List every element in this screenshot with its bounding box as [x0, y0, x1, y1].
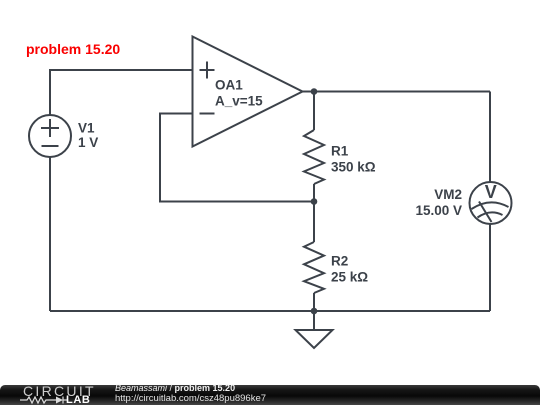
CircuitLab logo resistor-diode glyph [19, 395, 69, 405]
label VM2 value [415, 187, 462, 218]
wire VM2 top lead [489, 92, 491, 183]
wire VM2 bottom lead [489, 224, 491, 311]
footer url line [115, 394, 266, 403]
voltmeter VM2 [470, 182, 512, 224]
label R1 value [331, 144, 376, 175]
resistor R1 [304, 92, 324, 202]
svg-text:V: V [485, 182, 497, 202]
wire V1 bottom to bottom rail [49, 157, 51, 311]
wire V1 top to op-amp + input [50, 70, 193, 115]
CircuitLab logo LAB text [66, 395, 90, 405]
label R2 value [331, 253, 368, 284]
svg-text:A_v=15: A_v=15 [215, 94, 263, 109]
node at op-amp output [311, 88, 318, 95]
resistor R2 [304, 202, 324, 312]
svg-text:R1: R1 [331, 144, 349, 159]
svg-text:OA1: OA1 [215, 78, 243, 93]
node at R1/R2 junction [311, 198, 318, 205]
svg-text:V1: V1 [78, 121, 95, 136]
wire op-amp output to VM2 [303, 91, 491, 93]
label V1 value [78, 121, 98, 151]
svg-text:problem 15.20: problem 15.20 [26, 41, 120, 57]
voltage source V1 [29, 115, 71, 157]
node at ground junction [311, 308, 318, 315]
footer credit line [115, 384, 235, 393]
svg-text:R2: R2 [331, 253, 348, 268]
op-amp OA1 [193, 37, 303, 147]
wire bottom rail [50, 310, 490, 312]
footer bar [0, 385, 540, 406]
wire feedback from - input to R1/R2 junction [160, 114, 314, 202]
CircuitLab logo wordmark [23, 386, 103, 398]
label OA1 [215, 78, 263, 109]
svg-text:VM2: VM2 [434, 187, 462, 202]
svg-text:350 kΩ: 350 kΩ [331, 160, 376, 175]
svg-text:1 V: 1 V [78, 135, 98, 150]
svg-text:25 kΩ: 25 kΩ [331, 269, 368, 284]
ground [296, 311, 333, 348]
svg-text:15.00 V: 15.00 V [415, 203, 462, 218]
